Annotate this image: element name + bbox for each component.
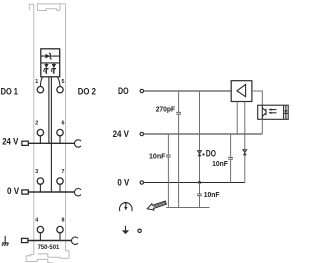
- wire driver to suppressor: [244, 102, 246, 183]
- svg-text:DO 2: DO 2: [78, 87, 96, 97]
- node 24V: [140, 132, 143, 135]
- module housing left edge: [33, 4, 35, 254]
- suppressor diode D0: [45, 53, 51, 59]
- rail earth symbol: [119, 203, 132, 212]
- wire terminal 2 stem: [39, 136, 41, 144]
- jumper contact 0V: [74, 189, 81, 196]
- wire internal 24V bus: [48, 77, 50, 144]
- module housing bottom right foot: [37, 251, 69, 259]
- wire box to terminal 1: [40, 77, 42, 87]
- wire terminal 4 stem: [39, 233, 41, 241]
- wire 24V row: [28, 142, 74, 144]
- wire 0V row: [28, 191, 74, 193]
- svg-text:24 V: 24 V: [2, 136, 19, 146]
- svg-text:4: 4: [35, 218, 38, 224]
- terminal 2: [37, 129, 43, 135]
- module housing top latch cutout: [37, 4, 60, 11]
- wire terminal 8 stem: [59, 233, 61, 241]
- wire box to terminal 5: [57, 77, 60, 87]
- svg-text:10nF: 10nF: [149, 152, 166, 161]
- optocoupler U3: [258, 105, 289, 119]
- svg-text:7: 7: [62, 169, 65, 175]
- wire terminal 6 stem: [59, 136, 61, 144]
- svg-text:5: 5: [62, 79, 65, 85]
- module housing top latch tab: [37, 4, 65, 11]
- driver U2: [231, 81, 252, 102]
- electronics box U1: [41, 49, 60, 77]
- svg-text:DO: DO: [118, 86, 129, 96]
- module housing left tab (grey): [29, 4, 34, 10]
- svg-text:DO 1: DO 1: [1, 87, 18, 97]
- terminal 5: [57, 87, 63, 93]
- svg-text:3: 3: [35, 169, 38, 175]
- terminal 8: [57, 226, 63, 232]
- LED V1: [43, 63, 49, 74]
- svg-text:0 V: 0 V: [117, 177, 130, 187]
- node 0V: [140, 181, 143, 184]
- wire internal 0V bus: [50, 77, 52, 192]
- suppressor diode DO: [198, 151, 202, 157]
- svg-text:2: 2: [35, 121, 38, 127]
- wire 0V rail: [144, 182, 245, 184]
- svg-text:6: 6: [62, 121, 65, 127]
- terminal 6: [57, 129, 63, 135]
- node DO: [140, 89, 143, 92]
- ground earth symbol: [2, 236, 9, 246]
- svg-text:750-501: 750-501: [38, 244, 60, 251]
- connector blade earth: [22, 238, 28, 242]
- wire DO protection branch: [199, 91, 201, 183]
- wire 24V to 0V branch: [230, 134, 232, 183]
- svg-text:10nF: 10nF: [212, 159, 228, 168]
- wire driver to optocoupler: [252, 91, 262, 105]
- node dot before DO label: [202, 153, 204, 155]
- terminal 1: [37, 87, 43, 93]
- module housing right edge: [65, 4, 67, 251]
- svg-text:24 V: 24 V: [113, 129, 130, 139]
- suppressor diode D0 wire: [41, 55, 60, 57]
- terminal 3: [37, 178, 43, 184]
- rail contact arrow: [147, 201, 166, 210]
- capacitor 10nF c: [197, 194, 202, 196]
- wire terminal 7 stem: [59, 184, 61, 192]
- module housing bottom left foot: [26, 255, 53, 263]
- wire 0V to shield branch: [199, 183, 201, 208]
- svg-text:1: 1: [35, 79, 38, 85]
- svg-text:0 V: 0 V: [7, 186, 20, 196]
- light arrow 1: [268, 108, 276, 110]
- wire 24V to shield branch: [167, 134, 169, 208]
- LED input wire: [285, 105, 287, 119]
- wire 24V rail: [144, 133, 263, 135]
- capacitor 10nF b: [228, 157, 233, 159]
- svg-text:DO: DO: [206, 148, 216, 158]
- LED input diode: [284, 110, 287, 113]
- jumper contact 24V: [74, 140, 81, 147]
- LED V2: [51, 63, 57, 74]
- driver triangle: [237, 84, 246, 96]
- wire driver supply stub: [236, 102, 238, 135]
- legend down arrow: [122, 226, 129, 234]
- capacitor 10nF a: [166, 155, 171, 157]
- suppressor diode driver: [243, 150, 247, 156]
- connector blade 0V: [22, 190, 28, 194]
- terminal 4: [37, 226, 43, 232]
- wire DO to shield branch: [178, 91, 180, 208]
- LED bus wire: [41, 62, 60, 64]
- wire shield rail: [166, 207, 209, 209]
- phototransistor wire: [261, 105, 263, 119]
- wire DO rail: [144, 90, 232, 92]
- svg-text:10nF: 10nF: [204, 190, 220, 199]
- legend contact circle: [138, 229, 141, 232]
- light arrow 2: [268, 112, 276, 114]
- jumper contact earth: [71, 237, 78, 244]
- junction 0V rail: [198, 181, 201, 184]
- capacitor 270pF: [176, 112, 181, 114]
- wire earth row: [28, 240, 71, 242]
- svg-text:8: 8: [62, 218, 65, 224]
- wire terminal 3 stem: [39, 184, 41, 192]
- connector blade 24V: [22, 141, 28, 145]
- terminal 7: [57, 178, 63, 184]
- svg-text:270pF: 270pF: [156, 105, 176, 114]
- phototransistor: [262, 108, 266, 116]
- optocoupler divider: [283, 105, 285, 119]
